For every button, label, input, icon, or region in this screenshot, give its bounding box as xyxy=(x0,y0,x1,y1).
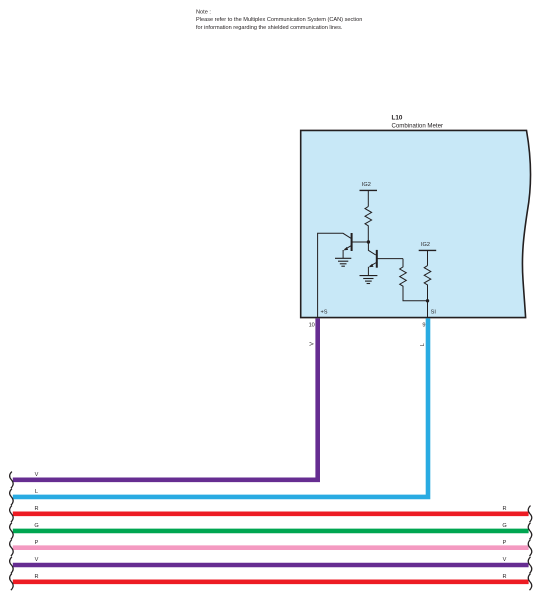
note text xyxy=(196,10,362,31)
right continuation squiggles xyxy=(528,506,532,591)
wire junction to transistor Q2 xyxy=(368,242,375,255)
svg-text:L10: L10 xyxy=(392,115,403,122)
wire R (red) row 3 xyxy=(13,511,529,516)
IG2 rail 1 xyxy=(360,182,378,207)
svg-text:+S: +S xyxy=(321,310,328,316)
svg-text:G: G xyxy=(502,523,506,529)
svg-text:V: V xyxy=(310,342,316,346)
resistor R2 (collector load) xyxy=(400,259,428,301)
svg-text:for information regarding the: for information regarding the shielded c… xyxy=(196,25,343,31)
transistor Q2 xyxy=(368,250,403,276)
svg-text:Note :: Note : xyxy=(196,10,211,16)
svg-text:R: R xyxy=(502,574,506,580)
wire V (violet) row 6 xyxy=(13,563,529,568)
svg-text:L: L xyxy=(420,343,426,346)
wire P (pink) row 5 xyxy=(13,545,529,550)
svg-text:V: V xyxy=(503,557,507,563)
svg-text:9: 9 xyxy=(422,323,425,329)
left continuation squiggles xyxy=(10,472,14,591)
right wire labels xyxy=(502,506,506,580)
svg-text:P: P xyxy=(35,540,39,546)
component box L10 Combination Meter xyxy=(301,130,531,317)
svg-text:IG2: IG2 xyxy=(362,182,371,188)
svg-text:10: 10 xyxy=(309,323,315,329)
ground (Q2 emitter) xyxy=(360,276,378,284)
wire from pin 10 (+S) up and to transistor Q1 xyxy=(318,233,351,317)
svg-text:Please refer to the Multiplex: Please refer to the Multiplex Communicat… xyxy=(196,17,362,23)
svg-text:L: L xyxy=(35,489,38,495)
wire node B to pin 9 xyxy=(427,301,429,318)
wire V (violet) from pin 10 xyxy=(13,318,318,479)
svg-text:P: P xyxy=(503,540,507,546)
svg-text:G: G xyxy=(34,523,38,529)
svg-text:V: V xyxy=(35,557,39,563)
svg-text:R: R xyxy=(34,574,38,580)
svg-text:Combination Meter: Combination Meter xyxy=(392,122,443,129)
svg-text:V: V xyxy=(35,472,39,478)
resistor R1 xyxy=(365,207,372,243)
transistor Q1 xyxy=(343,233,368,258)
resistor R3 xyxy=(424,266,431,301)
svg-text:IG2: IG2 xyxy=(421,242,430,248)
IG2 rail 2 xyxy=(419,242,437,266)
node B (junction dot) xyxy=(426,299,429,302)
left wire labels xyxy=(34,472,38,580)
wire L (light blue) from pin 9 xyxy=(13,318,428,497)
svg-text:SI: SI xyxy=(431,310,437,316)
wire R (red) row 7 xyxy=(13,579,529,584)
ground (Q1 emitter) xyxy=(335,258,351,266)
node A (junction dot) xyxy=(367,240,370,243)
svg-text:R: R xyxy=(502,506,506,512)
wire G (green) row 4 xyxy=(13,529,529,534)
svg-text:R: R xyxy=(34,506,38,512)
